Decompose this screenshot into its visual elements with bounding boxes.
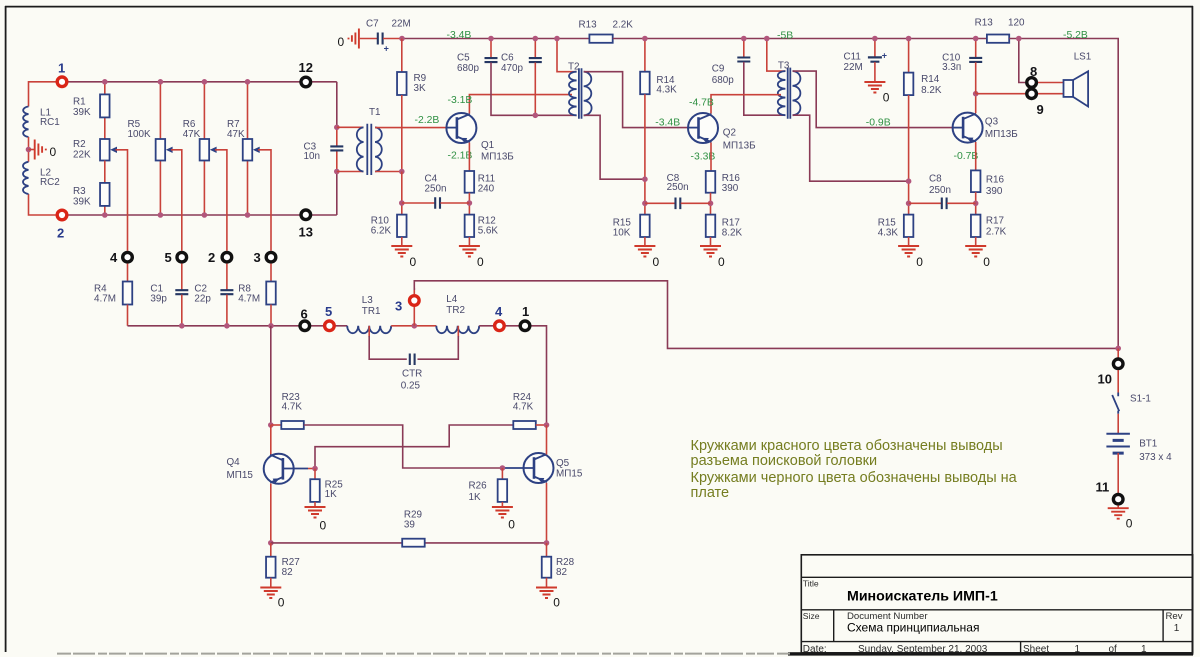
wire R9 bottom to T1 secondary junction	[401, 95, 403, 172]
transistor Q5 base bar	[533, 457, 536, 479]
wire C6 bottom pin	[534, 63, 536, 116]
svg-text:S1-1: S1-1	[1130, 394, 1151, 405]
wire Q5 emitter to R28 junction	[546, 483, 548, 543]
inductor L2 coil	[23, 162, 29, 194]
wire left stub terminal1 to corner	[29, 82, 69, 107]
svg-text:100K: 100K	[128, 129, 151, 140]
svg-text:плате: плате	[691, 485, 730, 501]
svg-text:1K: 1K	[325, 489, 337, 500]
terminal 9 black ring	[1027, 89, 1037, 99]
resistor R29	[402, 539, 425, 547]
capacitor C9 plates	[737, 58, 750, 62]
svg-text:4.3K: 4.3K	[878, 228, 899, 239]
wire R29 run	[271, 542, 547, 544]
wire R11 to C4 junction	[468, 193, 470, 215]
capacitor C2 plates	[220, 290, 233, 294]
transistor Q3 body	[953, 113, 983, 143]
svg-text:C6: C6	[501, 52, 514, 63]
node Q4 base R25	[312, 466, 318, 472]
svg-text:LS1: LS1	[1074, 52, 1092, 63]
svg-text:of: of	[1109, 644, 1118, 655]
node rail C7 R9	[399, 36, 405, 42]
svg-text:разъема поисковой головки: разъема поисковой головки	[691, 453, 878, 469]
svg-text:C11: C11	[844, 51, 862, 62]
wire battery to terminal11	[1117, 453, 1119, 493]
potentiometer R6 pins	[203, 82, 205, 139]
terminal 6 black ring	[300, 321, 310, 331]
transistor Q1 emitter arrow	[460, 138, 467, 143]
wire C2 to bottom rail	[226, 295, 228, 326]
svg-text:680p: 680p	[712, 75, 734, 86]
node Q5 emitter R28 R29	[544, 540, 550, 546]
wire T2 secondary bottom elbow to stage2 bias column	[584, 115, 645, 179]
inductor L1 coil	[23, 107, 28, 138]
capacitor C11 top pin	[874, 39, 876, 58]
svg-text:13: 13	[299, 224, 313, 239]
battery BT1 plates	[1106, 434, 1130, 447]
transistor Q1 body	[446, 113, 476, 143]
title block line under size row	[801, 641, 1192, 643]
resistor R23	[281, 421, 304, 429]
resistor R16 390 stage3	[971, 170, 981, 192]
svg-text:R2: R2	[73, 139, 86, 150]
wire terminal12 corner down C3 branch	[336, 82, 338, 128]
transistor Q5 base lead	[502, 467, 534, 469]
svg-text:120: 120	[1008, 17, 1025, 28]
wire C4 left segment	[402, 202, 435, 204]
svg-text:2: 2	[208, 250, 215, 265]
svg-text:5.6K: 5.6K	[478, 226, 499, 237]
svg-text:Миноискатель ИМП-1: Миноискатель ИМП-1	[847, 589, 998, 605]
svg-text:390: 390	[986, 186, 1003, 197]
svg-text:11: 11	[1096, 480, 1110, 495]
node rail terminal8 branch	[1016, 36, 1022, 42]
wire power rail segment -3.4V	[402, 38, 589, 40]
svg-text:T2: T2	[568, 62, 580, 73]
wire T1 primary top pin	[337, 126, 364, 128]
node rail stage3 bias	[906, 36, 912, 42]
speaker LS1 horn	[1073, 71, 1088, 106]
ground under R17 stage2	[700, 246, 721, 257]
page border frame top	[5, 6, 1193, 8]
svg-text:47K: 47K	[183, 129, 201, 140]
node C4 right emitter	[467, 200, 473, 206]
wire lower terminal3 up feed	[413, 288, 415, 294]
svg-text:680p: 680p	[457, 63, 479, 74]
wire R27 to ground	[270, 578, 272, 588]
ground under R15 4.3K	[898, 246, 919, 257]
transistor Q1 emitter lead	[457, 137, 470, 143]
wire R17 stage2 to ground	[710, 237, 712, 246]
svg-text:0: 0	[883, 91, 890, 105]
potentiometer R5 wiper wire down to terminal5	[171, 150, 182, 251]
node top R7	[245, 79, 251, 85]
node T1 primary top	[334, 125, 340, 131]
wire Q2 emitter to R16	[710, 143, 712, 172]
transistor Q2 collector lead	[699, 114, 712, 120]
wire R23 left pin	[271, 424, 282, 426]
capacitor C8 stage3 plates	[942, 198, 947, 210]
wire T3 secondary top to Q3 base	[793, 71, 953, 128]
svg-text:BT1: BT1	[1139, 438, 1158, 449]
svg-text:R13: R13	[579, 20, 598, 31]
svg-text:39K: 39K	[73, 196, 91, 207]
svg-text:0: 0	[718, 255, 725, 269]
svg-text:МП13Б: МП13Б	[723, 140, 756, 151]
wire L4 to corner at Q5 collector column	[479, 326, 546, 425]
node rail C6	[533, 36, 539, 42]
node top R5	[158, 79, 164, 85]
capacitor C5 top pin	[490, 39, 492, 58]
node stage3 C8 left	[906, 201, 912, 207]
wire stage2 C8 right segment	[681, 202, 711, 204]
potentiometer R5 pins	[159, 82, 161, 139]
lower terminal 1 black ring	[520, 321, 530, 331]
lower terminal 2 black ring	[222, 252, 232, 262]
resistor R3	[100, 183, 110, 206]
svg-text:Q2: Q2	[723, 128, 736, 139]
transistor Q1 base lead	[447, 127, 457, 129]
node bottom R5	[158, 212, 164, 218]
resistor R8	[266, 282, 276, 305]
resistor R24	[513, 421, 536, 429]
node top R1	[102, 79, 108, 85]
svg-text:Sunday, September 21, 2003: Sunday, September 21, 2003	[858, 644, 988, 655]
resistor R13 2.2K left rail continues	[588, 38, 590, 40]
capacitor CTR plates	[410, 354, 415, 366]
wire Q4 base red stub	[308, 468, 315, 470]
wire T3 secondary bottom elbow to stage3 bias column	[793, 115, 909, 181]
potentiometer R6	[200, 139, 210, 161]
svg-text:2: 2	[57, 225, 64, 240]
transistor Q2 body	[688, 113, 718, 143]
potentiometer R6 wiper wire down to lower terminal2	[215, 150, 227, 251]
svg-text:5: 5	[165, 250, 172, 265]
svg-text:МП15: МП15	[556, 469, 583, 480]
ground under R15 10K	[634, 246, 655, 257]
wire R4 to bottom rail	[127, 305, 129, 326]
terminal 8 black ring	[1027, 78, 1037, 88]
svg-text:3: 3	[395, 298, 402, 313]
transistor Q4 emitter arrow	[273, 478, 280, 483]
svg-text:МП13Б: МП13Б	[481, 152, 514, 163]
wire R25 to ground	[314, 502, 316, 507]
wire lower horizontal rail to L3	[128, 325, 348, 327]
svg-text:RC2: RC2	[40, 177, 60, 188]
potentiometer R2 wiper wire down to terminal4	[116, 150, 128, 251]
transistor Q4 emitter lead	[270, 477, 283, 483]
transistor Q3 base lead	[953, 127, 964, 129]
capacitor C4 plates	[435, 197, 440, 209]
transistor Q3 base bar	[962, 117, 965, 139]
wire stage3 bias column middle	[908, 95, 910, 215]
speaker LS1 box	[1064, 80, 1074, 97]
inductor L4 coil	[436, 326, 479, 333]
wire R28 top pin	[546, 543, 548, 557]
wire bottom rail of head-coil block	[56, 214, 337, 216]
svg-text:82: 82	[556, 567, 567, 578]
svg-text:TR1: TR1	[362, 306, 381, 317]
transistor Q2 emitter arrow	[702, 138, 709, 143]
capacitor C6 plates	[529, 58, 542, 62]
potentiometer R7	[243, 139, 253, 161]
transformer T3 primary winding	[778, 71, 786, 115]
svg-text:0: 0	[278, 596, 285, 610]
node R9 T1 secondary bottom	[399, 169, 405, 175]
transistor Q4 body	[264, 454, 294, 484]
svg-text:373 x 4: 373 x 4	[1139, 452, 1172, 463]
node Q5 base R26	[500, 465, 506, 471]
svg-text:Title: Title	[803, 578, 819, 588]
svg-text:250n: 250n	[929, 185, 951, 196]
node stage3 C8 right emitter	[973, 201, 979, 207]
resistor R10	[397, 215, 407, 237]
svg-text:1: 1	[1075, 644, 1081, 655]
wire R27 top pin	[270, 543, 272, 557]
ground under R12	[459, 246, 480, 257]
terminal 2 red ring	[57, 210, 67, 220]
resistor R14 8.2K	[904, 73, 914, 96]
wire L1 to mid tap	[28, 137, 30, 162]
svg-text:L3: L3	[362, 295, 373, 306]
svg-text:1: 1	[522, 304, 529, 319]
svg-text:C7: C7	[366, 18, 379, 29]
title block line under title row	[801, 609, 1192, 611]
svg-text:1K: 1K	[469, 492, 481, 503]
svg-text:Date:: Date:	[803, 644, 827, 655]
svg-text:МП13Б: МП13Б	[985, 129, 1018, 140]
svg-text:0.25: 0.25	[401, 380, 421, 391]
svg-text:240: 240	[478, 183, 495, 194]
node C2 bottom	[224, 323, 230, 329]
transistor Q3 emitter lead	[963, 136, 976, 142]
transistor Q3 collector lead	[963, 114, 976, 120]
svg-text:Кружками черного цвета обознач: Кружками черного цвета обозначены выводы…	[691, 470, 1018, 486]
node Q5 collector R24	[544, 422, 550, 428]
capacitor C9 top pin	[743, 39, 745, 58]
svg-text:-0.7В: -0.7В	[954, 151, 979, 162]
potentiometer R2 wiper arrow	[110, 147, 117, 153]
node stage2 C8 right emitter	[708, 201, 714, 207]
lower terminal 4 red ring	[495, 321, 505, 331]
lower terminal 3 red ring	[410, 296, 420, 306]
wire Q5 collector pin	[546, 425, 548, 455]
svg-text:-2.2В: -2.2В	[415, 115, 440, 126]
svg-text:0: 0	[50, 145, 57, 159]
potentiometer R6 wiper arrow	[210, 147, 217, 153]
node C4 left	[399, 200, 405, 206]
svg-text:3.3п: 3.3п	[942, 62, 961, 73]
wire R9 junction down to C4 junction	[401, 172, 403, 215]
svg-text:4.7K: 4.7K	[513, 402, 534, 413]
node bottom R7	[245, 212, 251, 218]
svg-text:0: 0	[916, 255, 923, 269]
wire R15 4.3K to ground	[908, 237, 910, 246]
svg-text:Кружками красного цвета обозна: Кружками красного цвета обозначены вывод…	[691, 438, 1003, 454]
wire Q3 collector junction to terminal9	[976, 93, 1026, 95]
node Q4 collector R23	[268, 422, 274, 428]
ground under R10	[391, 246, 412, 257]
node rail C10	[973, 36, 979, 42]
transistor Q5 body	[524, 453, 554, 483]
node rail C11	[872, 36, 878, 42]
svg-text:6.2K: 6.2K	[371, 226, 392, 237]
svg-text:250n: 250n	[425, 183, 447, 194]
svg-text:0: 0	[653, 255, 660, 269]
svg-text:39: 39	[404, 520, 415, 531]
svg-text:10K: 10K	[613, 228, 631, 239]
svg-text:0: 0	[983, 255, 990, 269]
wire T2 secondary top to Q2 base	[584, 72, 688, 128]
resistor R3 pins	[104, 161, 106, 183]
wire terminal10 to switch	[1117, 370, 1119, 393]
svg-text:39K: 39K	[73, 107, 91, 118]
potentiometer R2	[100, 139, 110, 161]
wire terminal2 to C2	[226, 264, 228, 290]
svg-text:6: 6	[301, 306, 308, 321]
svg-text:8.2K: 8.2K	[921, 85, 942, 96]
svg-text:RC1: RC1	[40, 117, 60, 128]
lower terminal 3 black ring	[266, 252, 276, 262]
svg-text:5: 5	[325, 304, 332, 319]
resistor R13 120	[987, 35, 1009, 43]
page border frame right	[1191, 6, 1193, 655]
svg-text:Sheet: Sheet	[1023, 644, 1049, 655]
transformer T1 primary winding	[357, 127, 364, 171]
svg-text:0: 0	[553, 596, 560, 610]
transistor Q1 collector wire to T2 tap	[469, 95, 572, 114]
node rail T3 feed	[764, 36, 770, 42]
page border frame left	[5, 6, 7, 652]
svg-text:12: 12	[299, 60, 313, 75]
wire C10 bottom pin	[975, 62, 977, 93]
page border frame bottom speckled part	[57, 653, 790, 655]
capacitor C1 plates	[175, 290, 188, 294]
svg-text:3K: 3K	[414, 83, 426, 94]
capacitor C10 top pin	[975, 39, 977, 58]
wire C4 right segment	[440, 202, 469, 204]
capacitor C7 plates	[378, 33, 383, 45]
node rail T2 feed	[554, 36, 560, 42]
svg-text:R17: R17	[986, 215, 1004, 226]
svg-text:3: 3	[254, 250, 261, 265]
terminal 10 black ring	[1113, 359, 1123, 369]
wire stage3 C8 right segment	[947, 202, 976, 204]
transistor Q5 emitter lead	[534, 477, 547, 483]
capacitor C6 top pin	[534, 39, 536, 58]
svg-text:Q1: Q1	[481, 140, 495, 151]
title block vertical size/doc divider	[833, 610, 835, 642]
transistor Q4 base bar	[282, 458, 285, 480]
svg-text:4: 4	[110, 250, 118, 265]
wire Q4 collector pin	[270, 425, 272, 455]
terminal 1 red ring	[57, 77, 67, 87]
svg-text:TR2: TR2	[446, 305, 465, 316]
transistor Q5 collector lead	[534, 454, 547, 460]
node C1 bottom	[179, 323, 185, 329]
svg-text:C9: C9	[712, 63, 725, 74]
transistor Q5 emitter arrow	[537, 478, 544, 483]
svg-text:R27: R27	[282, 557, 300, 568]
terminal 11 black ring	[1113, 494, 1123, 504]
wire power rail segment -5.2V	[1009, 39, 1118, 349]
wire Q4 emitter to R27 junction	[270, 484, 272, 543]
svg-text:T1: T1	[369, 107, 381, 118]
svg-text:-0.9В: -0.9В	[866, 118, 891, 129]
wire stage3 bias column R14 top pin	[908, 39, 910, 73]
svg-text:0: 0	[477, 255, 484, 269]
wire CTR tap from L3	[368, 326, 370, 337]
wire Q3 collector to C10 junction	[975, 94, 977, 114]
resistor R15 10K	[640, 215, 650, 237]
resistor R25	[310, 479, 320, 502]
wire C5 bottom to T2 primary bottom	[491, 63, 577, 116]
wire R9 top pin	[401, 39, 403, 73]
svg-text:0: 0	[508, 518, 515, 532]
title block line under empty row	[801, 576, 1192, 578]
svg-text:R13: R13	[975, 17, 994, 28]
svg-text:-3.4В: -3.4В	[655, 118, 680, 129]
wire between L3 and L4	[391, 325, 436, 327]
transformer T2 primary winding	[569, 72, 577, 116]
svg-text:8.2K: 8.2K	[722, 228, 743, 239]
svg-text:47K: 47K	[227, 129, 245, 140]
resistor R26	[498, 479, 508, 502]
wire stage2 bias column R14 top pin	[644, 39, 646, 72]
svg-text:+: +	[882, 50, 887, 60]
potentiometer R5 wiper arrow	[166, 147, 173, 153]
wire R26 to ground	[501, 502, 503, 507]
svg-text:4.7K: 4.7K	[282, 402, 303, 413]
capacitor C3 pins	[336, 127, 338, 146]
transformer T2 secondary winding	[584, 72, 592, 116]
svg-text:1: 1	[58, 60, 65, 75]
svg-text:8: 8	[1030, 64, 1037, 79]
capacitor C8 stage2 plates	[676, 198, 681, 210]
svg-text:Q4: Q4	[227, 457, 241, 468]
wire C9 bottom to T3 primary bottom	[744, 62, 786, 115]
resistor R15 4.3K	[904, 215, 914, 237]
svg-text:470p: 470p	[501, 63, 523, 74]
page border frame bottom solid part	[788, 652, 1193, 655]
ground under battery	[1108, 508, 1129, 519]
svg-text:Size: Size	[803, 611, 820, 621]
svg-text:2.2K: 2.2K	[613, 20, 634, 31]
wire R8 junction down to Q4 collector column	[270, 326, 272, 425]
svg-text:0: 0	[410, 255, 417, 269]
resistor R1 pins	[104, 82, 106, 95]
svg-text:4.7M: 4.7M	[94, 293, 116, 304]
node T1 primary bottom	[334, 169, 340, 175]
node Q3 collector C10 speaker	[973, 91, 979, 97]
ground under R26	[492, 507, 513, 518]
wire junction up to lower terminal3 ring	[413, 307, 415, 326]
svg-text:22p: 22p	[194, 293, 211, 304]
wire power rail segment -5V	[613, 38, 987, 40]
svg-text:9: 9	[1037, 102, 1044, 117]
resistor R9	[397, 72, 407, 95]
resistor R28	[542, 557, 552, 578]
wire switch to battery	[1117, 414, 1119, 434]
svg-text:Схема принципиальная: Схема принципиальная	[847, 621, 979, 635]
wire T2 primary top feed from rail	[557, 39, 577, 72]
resistor R12	[465, 215, 475, 237]
svg-text:2.7K: 2.7K	[986, 227, 1007, 238]
svg-text:1: 1	[1174, 623, 1180, 634]
svg-text:22M: 22M	[392, 18, 411, 29]
wire stage3 C8 left segment	[909, 202, 942, 204]
svg-text:Rev: Rev	[1166, 611, 1183, 622]
